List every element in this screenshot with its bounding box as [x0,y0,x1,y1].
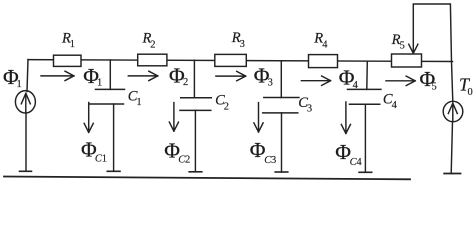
capacitor C1 [90,89,125,104]
svg-text:1: 1 [17,79,22,90]
arrow flux Phi4 under R4 [301,76,330,85]
svg-text:3: 3 [240,39,245,50]
resistor R3 [215,54,247,66]
resistor R5 (rheostat) [392,54,422,67]
arrow flux Phi2 under R2 [128,71,158,80]
arrow flux PhiC2 [169,103,178,132]
bottom border line [4,177,410,180]
wire below C4 [364,104,366,172]
wire right branch vertical [451,62,453,174]
ground tick C2 [189,171,202,173]
svg-text:1: 1 [70,39,75,50]
ground tick C3 [275,171,288,173]
wire below C2 [194,110,196,171]
arrow flux PhiC1 [84,103,93,133]
arrow flux PhiC4 [341,102,350,134]
resistor R1 [54,55,82,66]
svg-text:1: 1 [97,78,102,89]
svg-text:1: 1 [102,153,107,164]
arrow flux Phi5 under R5 [386,76,415,85]
node 4 wire stub to C4 [366,61,369,89]
svg-text:3: 3 [307,104,312,115]
source T0 right (temperature source circle with up arrow) [443,101,463,121]
arrow flux Phi3 under R3 [216,71,246,80]
node 3 wire stub to C3 [280,61,282,98]
wire left branch vertical [26,60,28,172]
capacitor C3 [263,98,299,113]
wire main top rail [28,60,453,62]
svg-text:3: 3 [271,155,276,166]
svg-text:4: 4 [353,80,359,91]
svg-text:2: 2 [224,101,229,112]
arrow flux Phi1 under R1 [41,71,74,80]
wire R5 wiper loop [413,4,451,62]
ground tick C4 [359,171,372,173]
svg-text:0: 0 [468,87,473,98]
wire below C3 [281,113,283,172]
source Phi_1 left (flux source circle with up arrow) [15,91,35,113]
svg-text:1: 1 [136,97,141,108]
wiper arrowhead on R5 [409,44,418,53]
ground left tick [20,170,32,172]
svg-text:2: 2 [185,155,190,166]
ground tick C1 [107,170,120,172]
arrow flux PhiC3 [254,103,263,132]
svg-text:2: 2 [183,77,188,88]
svg-text:3: 3 [268,77,273,88]
node 2 wire stub to C2 [193,60,195,97]
node 1 wire stub to C1 [109,60,111,89]
capacitor C4 [348,89,381,104]
svg-text:5: 5 [432,82,437,93]
capacitor C2 [180,98,211,111]
resistor R2 [138,54,167,66]
ground right tick [444,173,460,175]
svg-text:4: 4 [322,39,328,50]
wire below C1 [113,104,115,171]
svg-text:2: 2 [150,39,155,50]
resistor R4 [309,55,338,68]
svg-text:4: 4 [356,157,362,168]
svg-text:5: 5 [400,41,405,52]
svg-text:4: 4 [392,100,398,111]
